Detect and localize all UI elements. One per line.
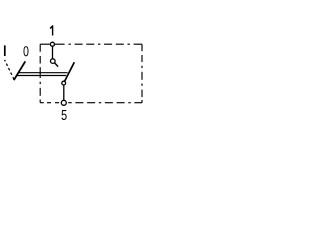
enclosure box bottom edge (dash-dot), right of terminal 5 (68, 102, 142, 104)
label position I (4, 45, 6, 56)
mechanical link bar upper line (18, 72, 67, 74)
terminal 1 circle (50, 42, 54, 46)
enclosure box top edge (dash-dot), right of terminal 1 (55, 43, 142, 45)
enclosure box bottom edge (dash-dot), left of terminal 5 (40, 102, 59, 104)
label terminal 1 (50, 25, 54, 35)
wire pivot contact to terminal 5 (63, 85, 65, 101)
enclosure box left edge (dash-dot) (39, 44, 41, 102)
actuator rocker arm to position 0 (solid) (14, 61, 25, 80)
fixed contact circle (51, 59, 56, 64)
pivot contact circle (62, 81, 66, 85)
enclosure box right edge (dash-dot) (141, 44, 143, 102)
wire terminal 1 to fixed contact (52, 46, 54, 59)
switch lever (moving contact, open position) (65, 62, 75, 81)
mechanical link bar lower line (17, 75, 67, 77)
terminal 5 circle (61, 100, 66, 105)
enclosure box top edge (dash-dot), left of terminal 1 (40, 43, 50, 45)
fixed contact angled stub (55, 63, 59, 67)
label position 0 (23, 46, 28, 56)
label terminal 5 (62, 110, 67, 120)
actuator rocker arm to position I (dashed) (5, 60, 14, 80)
